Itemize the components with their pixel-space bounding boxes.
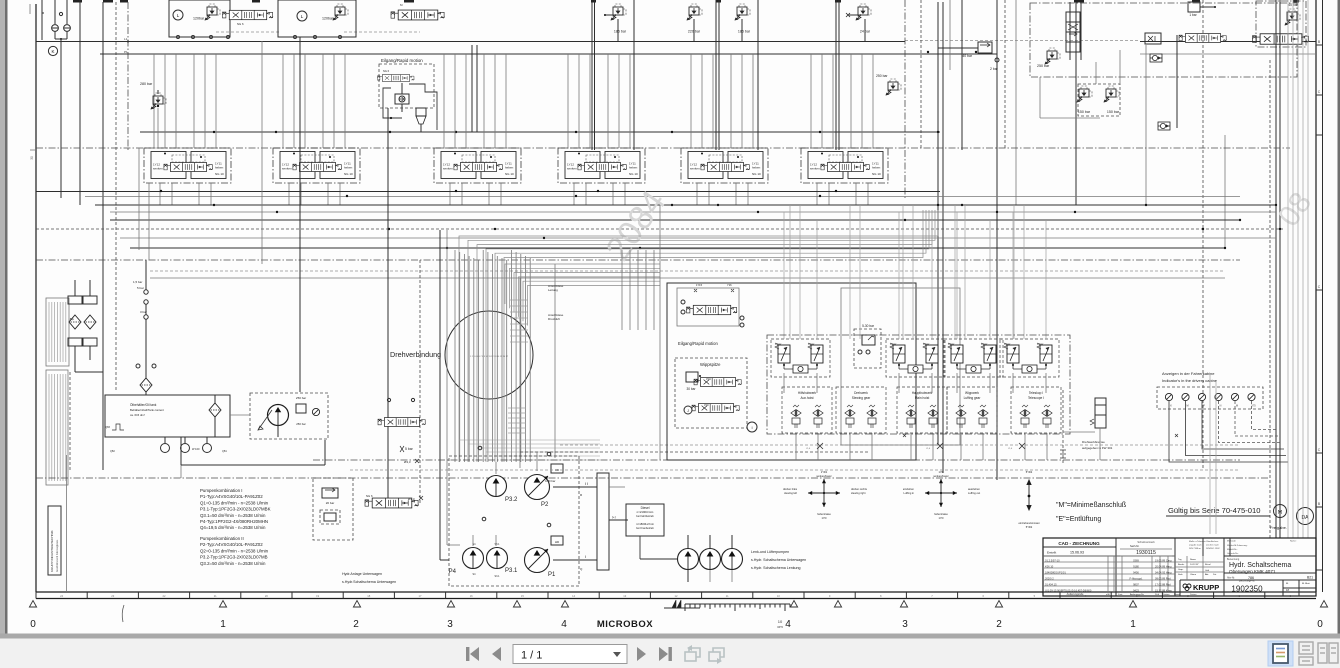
svg-text:40 bar: 40 bar <box>1288 3 1298 7</box>
svg-text:4: 4 <box>561 619 567 630</box>
svg-text:Dst: Dst <box>1213 573 1217 576</box>
joystick cross senken-heben 1 <box>808 479 840 507</box>
svg-text:20.04.89 Harg: 20.04.89 Harg <box>1155 565 1172 569</box>
svg-text:9180: 9180 <box>1133 565 1139 569</box>
svg-text:14.12.87: 14.12.87 <box>1190 564 1199 566</box>
function group enclosure <box>767 335 1070 434</box>
toolbar facing view button <box>1318 643 1338 663</box>
hatch marks in slew ring <box>510 299 528 301</box>
svg-text:I: I <box>585 554 586 559</box>
indicator gauge 6 <box>1248 393 1255 400</box>
svg-text:1 bar: 1 bar <box>1189 13 1197 17</box>
relief valve 120bar box1 <box>205 4 221 21</box>
svg-text:250 bar: 250 bar <box>876 74 888 78</box>
wires above valve group 6 <box>810 54 812 148</box>
Wippspitze valve 3YU <box>694 378 742 387</box>
svg-text:Obern: Obern <box>1190 573 1197 576</box>
svg-text:n=1800LV/min: n=1800LV/min <box>636 522 654 526</box>
node J <box>684 406 692 414</box>
title block outer <box>1043 538 1316 596</box>
node I <box>747 422 757 432</box>
pump assembly dashed enclosure <box>449 456 579 586</box>
svg-text:Name: Name <box>1174 594 1181 596</box>
svg-text:185 bar: 185 bar <box>738 30 751 34</box>
svg-text:Gültig bis Serie 70-475-010: Gültig bis Serie 70-475-010 <box>1168 506 1260 515</box>
relief valves 150bar pair <box>1077 86 1093 103</box>
svg-text:1902350: 1902350 <box>1231 585 1263 594</box>
return filters <box>74 280 76 296</box>
junction dots on buses <box>213 204 215 206</box>
svg-text:F-Aba-gpd.: F-Aba-gpd. <box>1130 577 1143 581</box>
tank heater symbol <box>112 424 124 430</box>
svg-text:2 bar: 2 bar <box>990 67 999 71</box>
svg-text:s.Hydr. Schaltschema Unterwage: s.Hydr. Schaltschema Unterwagen <box>751 558 806 562</box>
svg-text:40 bar: 40 bar <box>962 54 972 58</box>
svg-text:220 bar: 220 bar <box>688 30 701 34</box>
revision rows <box>1043 555 1175 557</box>
toolbar prev-page button <box>492 647 501 661</box>
wire bus y238 <box>120 237 1276 239</box>
wires bundle to pumps <box>495 462 497 474</box>
solenoid valve between L-boxes <box>223 10 274 19</box>
svg-text:Eilgang/Rapid motion: Eilgang/Rapid motion <box>381 58 423 63</box>
wire vertical pair 472-477 <box>471 45 473 132</box>
svg-text:1 / 1: 1 / 1 <box>521 650 542 662</box>
gearbox <box>597 473 609 570</box>
function box Hilfshubwerk <box>782 387 832 433</box>
orifice marks on dash bus <box>817 443 823 449</box>
svg-text:einziehen: einziehen <box>903 487 915 491</box>
filter funnel eilgang <box>416 108 426 116</box>
toolbar page combobox <box>513 645 627 664</box>
svg-text:drehen rechts: drehen rechts <box>851 487 868 491</box>
inner enclosure B <box>841 288 960 445</box>
toolbar first-page button <box>470 647 479 661</box>
svg-text:I I: I I <box>585 481 588 486</box>
svg-text:17.02.88 Rod: 17.02.88 Rod <box>1155 583 1171 587</box>
pump P3.2 <box>486 476 507 497</box>
wires above valve group 5 <box>690 54 692 148</box>
svg-text:1 2 3 4 5 6 7 8 9 10 11 12 13: 1 2 3 4 5 6 7 8 9 10 11 12 13 14 15 16 1… <box>470 356 509 358</box>
svg-text:Maßstab:: Maßstab: <box>1227 540 1237 543</box>
svg-text:Teleskop I: Teleskop I <box>1029 391 1043 395</box>
svg-text:1YD: 1YD <box>938 516 943 520</box>
svg-text:J: J <box>687 409 689 413</box>
4-2 valve right top <box>1179 34 1227 43</box>
svg-text:150 bar: 150 bar <box>1078 110 1091 114</box>
svg-text:Ansichtsbereich Fahrzeugkrane: Ansichtsbereich Fahrzeugkrane <box>56 539 59 572</box>
svg-text:ca. 615 dm³: ca. 615 dm³ <box>130 413 145 417</box>
svg-text:Y70: Y70 <box>1251 405 1256 408</box>
svg-text:250 bar: 250 bar <box>296 396 306 400</box>
svg-text:drehen links: drehen links <box>783 487 798 491</box>
diesel text box <box>626 504 664 536</box>
right window edge <box>1338 0 1340 637</box>
svg-text:Hilfshubwerk: Hilfshubwerk <box>798 391 817 395</box>
wire bus y271 dashed <box>150 270 1225 272</box>
wires above pair group 3 <box>956 212 958 339</box>
wires mid-right long verticals <box>789 205 791 339</box>
svg-text:Luffing out: Luffing out <box>968 491 980 495</box>
wire rail y132 <box>140 131 940 133</box>
svg-text:Zeichnungs-Nr.: Zeichnungs-Nr. <box>1239 580 1256 583</box>
wire long vertical buses left <box>79 0 81 205</box>
left bottom dashed wires <box>69 372 71 470</box>
svg-text:20: 20 <box>265 594 268 598</box>
svg-text:Stzb.: Stzb. <box>1178 573 1183 576</box>
wire bus y205 <box>95 204 1276 206</box>
valve 40 bar 2 bar <box>978 42 992 53</box>
relief drop wires <box>617 19 619 42</box>
svg-text:21: 21 <box>214 594 217 598</box>
HD box lower <box>551 536 563 545</box>
right border letter marks <box>1316 44 1323 46</box>
L-box 2 <box>278 0 356 37</box>
svg-text:NG 6: NG 6 <box>366 494 373 498</box>
svg-text:Luffing in: Luffing in <box>904 491 915 495</box>
svg-text:W 100: W 100 <box>192 447 200 451</box>
svg-text:Oberflächen-: Oberflächen- <box>1206 540 1219 543</box>
svg-text:zeichen nach: zeichen nach <box>1206 545 1220 547</box>
svg-text:slewing right: slewing right <box>851 491 866 495</box>
svg-text:Telescope I: Telescope I <box>1028 396 1044 400</box>
svg-text:24 bar: 24 bar <box>860 30 871 34</box>
svg-text:P1-Typ:A4VSG40/10L-PA91Z02: P1-Typ:A4VSG40/10L-PA91Z02 <box>200 494 263 499</box>
svg-text:Bearb.: Bearb. <box>1178 563 1185 566</box>
svg-text:15.06.93: 15.06.93 <box>1070 551 1084 555</box>
svg-text:I: I <box>751 425 752 430</box>
directional valve group 6 <box>801 148 888 183</box>
wire long verticals center-left <box>261 41 263 264</box>
wires pump to tank <box>230 414 250 416</box>
svg-text:NG 6: NG 6 <box>383 69 390 73</box>
wire bundle below ring turning right <box>459 439 600 441</box>
wires below function boxes <box>795 433 797 460</box>
svg-text:Prüf: Prüf <box>1155 593 1159 596</box>
wire top bus y41 <box>36 41 905 43</box>
svg-text:3Y0: 3Y0 <box>704 403 709 407</box>
wire bus y196 <box>85 196 1240 198</box>
stray pen mark <box>122 605 124 622</box>
svg-text:1840080GUP1/01: 1840080GUP1/01 <box>1045 571 1066 575</box>
check valve eilgang top <box>395 94 409 104</box>
wire verticals center-top <box>904 0 906 200</box>
svg-text:30: 30 <box>30 156 34 160</box>
function box Wippwerk <box>947 387 997 433</box>
svg-text:DIN/ISO 1302: DIN/ISO 1302 <box>1206 548 1220 550</box>
svg-text:9423: 9423 <box>1133 589 1139 593</box>
svg-text:1YD: 1YD <box>938 470 943 474</box>
Drehwerkbremse valve <box>1095 398 1106 428</box>
check valve right <box>1150 54 1162 62</box>
svg-text:Bl.: Bl. <box>1286 583 1289 585</box>
wires above valve group 4 <box>567 54 569 148</box>
svg-text:Hydr.Anlage Unterwagen: Hydr.Anlage Unterwagen <box>342 572 382 576</box>
svg-text:19.05.89 Carg: 19.05.89 Carg <box>1155 559 1172 563</box>
wire left bracket <box>41 0 43 40</box>
svg-text:2: 2 <box>996 619 1002 630</box>
svg-text:Leitung: Leitung <box>548 288 558 292</box>
svg-text:Haupthubwerk: Haupthubwerk <box>912 391 933 395</box>
svg-text:P4: P4 <box>449 569 457 575</box>
toolbar scrolling view button <box>1299 642 1313 665</box>
svg-text:Freigabe.: Freigabe. <box>1270 525 1287 530</box>
svg-text:18: 18 <box>367 594 370 598</box>
svg-text:QB2: QB2 <box>110 450 115 453</box>
tank <box>105 395 230 437</box>
double arrow teleskop <box>1027 480 1031 510</box>
tank drain gauges <box>164 437 166 443</box>
svg-text:cm: cm <box>777 624 783 629</box>
svg-text:1,5 bar: 1,5 bar <box>133 280 142 284</box>
svg-text:Name: Name <box>1190 559 1197 561</box>
wire bundle verticals through slew ring <box>454 250 456 462</box>
wires above valve group 2 <box>282 54 284 148</box>
svg-text:3: 3 <box>447 619 453 630</box>
mark DA circle <box>1297 508 1314 525</box>
svg-text:angabe nach: angabe nach <box>1189 545 1202 547</box>
toolbar single-page view selected <box>1268 641 1293 666</box>
left window strip <box>0 0 5 637</box>
toolbar next-page button <box>637 647 646 661</box>
svg-text:19: 19 <box>316 594 319 598</box>
indicator dashed box <box>1157 387 1263 409</box>
dash-dot enclosure top right <box>1030 3 1297 77</box>
svg-text:K: K <box>51 49 54 54</box>
wire bus y248 <box>130 247 1225 249</box>
svg-text:s.Hydr.Schaltschema Unterwagen: s.Hydr.Schaltschema Unterwagen <box>342 580 396 584</box>
toolbar next-view button disabled <box>709 648 724 664</box>
orifice marks row y436 <box>903 434 906 437</box>
svg-text:ausziehen: ausziehen <box>968 487 980 491</box>
note box rotated text 1 <box>46 298 69 366</box>
wire verticals eilgang bundle <box>621 250 623 330</box>
wires above valve group 3 <box>443 54 445 148</box>
svg-text:Y16: Y16 <box>727 283 732 287</box>
svg-text:Luffing gear: Luffing gear <box>964 396 982 400</box>
svg-text:80μ: 80μ <box>70 317 75 321</box>
directional valve group 4 <box>558 148 645 183</box>
svg-text:s.Hydr. Schaltschema Lenkung: s.Hydr. Schaltschema Lenkung <box>751 566 801 570</box>
svg-text:9456: 9456 <box>1133 571 1139 575</box>
svg-text:NG 6: NG 6 <box>237 22 244 26</box>
svg-text:einziehen/einmast: einziehen/einmast <box>1019 521 1040 525</box>
svg-text:23: 23 <box>111 594 114 598</box>
svg-text:Gesenk-Nr.:: Gesenk-Nr.: <box>1227 552 1239 555</box>
svg-text:Datum: Datum <box>1163 593 1170 596</box>
svg-text:202/0.2: 202/0.2 <box>1045 577 1054 581</box>
svg-text:2: 2 <box>353 619 359 630</box>
svg-text:KRUPP INDUSTRIETECHNIK: KRUPP INDUSTRIETECHNIK <box>50 529 54 572</box>
svg-text:[+]: [+] <box>612 515 616 519</box>
svg-text:Abt.: Abt. <box>1205 573 1209 576</box>
svg-text:Ölbehälter/Oil tank: Ölbehälter/Oil tank <box>130 403 157 407</box>
valve pair group 4 <box>1000 339 1059 377</box>
svg-text:Main hoist: Main hoist <box>915 396 930 400</box>
wire bus y212 <box>110 211 1276 213</box>
bottom page shadow bar <box>0 634 1340 639</box>
svg-text:P3.1-Typ:1PF2G3-2X/023LD07MBK: P3.1-Typ:1PF2G3-2X/023LD07MBK <box>200 507 271 512</box>
relief valve 250 bar pump <box>296 404 306 413</box>
svg-text:20 bar: 20 bar <box>326 501 335 505</box>
svg-text:Werkst.M.Zulassung:: Werkst.M.Zulassung: <box>1227 544 1248 547</box>
svg-text:Name :: Name : <box>1290 541 1297 543</box>
toolbar prev-view button disabled <box>685 645 700 661</box>
wires above pair group 2 <box>898 212 900 339</box>
wires above pair group 4 <box>1012 212 1014 339</box>
svg-text:5 bar: 5 bar <box>405 447 414 451</box>
svg-text:P2: P2 <box>541 502 549 508</box>
wire bus y191 <box>36 191 940 193</box>
pump P1 <box>525 548 550 573</box>
svg-text:14: 14 <box>572 594 575 598</box>
svg-text:22: 22 <box>163 594 166 598</box>
directional valve group 2 <box>273 148 360 183</box>
svg-text:Hydr. Schaltschema: Hydr. Schaltschema <box>1229 562 1291 569</box>
svg-text:senken/lower: senken/lower <box>933 474 948 478</box>
svg-text:Drehwerkbremse: Drehwerkbremse <box>1082 440 1105 444</box>
svg-text:"M"=Minimeßanschluß: "M"=Minimeßanschluß <box>1056 502 1126 509</box>
svg-text:1: 1 <box>1130 619 1136 630</box>
svg-text:Eilgang/Rapid motion: Eilgang/Rapid motion <box>678 341 718 346</box>
small valve 1 bar <box>1188 2 1200 12</box>
Eilgang enclosure <box>667 283 916 460</box>
svg-text:Datum: Datum <box>1190 593 1197 596</box>
pump P3.1 <box>487 548 508 569</box>
svg-text:M: M <box>1236 405 1238 408</box>
svg-text:MICROBOX: MICROBOX <box>597 619 653 630</box>
small valve right mid <box>1145 33 1161 44</box>
svg-text:0: 0 <box>1317 619 1323 630</box>
svg-text:Q3.2=50 dm³/min - n=2538 U/min: Q3.2=50 dm³/min - n=2538 U/min <box>200 561 266 566</box>
Wippspitze valve 3YO <box>692 404 740 413</box>
wire bundle top nest A <box>459 210 938 462</box>
svg-text:11: 11 <box>726 594 729 598</box>
svg-text:QB3: QB3 <box>105 426 110 429</box>
function box Drehwerk <box>836 387 886 433</box>
drawing frame left border <box>35 4 37 592</box>
svg-text:Änderungstufe: Änderungstufe <box>1067 592 1084 596</box>
10 cm fine ruler <box>685 603 790 605</box>
svg-text:slewing left: slewing left <box>784 491 797 495</box>
wire right long bus pair <box>1275 0 1277 538</box>
svg-text:S3.1: S3.1 <box>495 575 501 578</box>
svg-text:250 bar: 250 bar <box>296 422 306 426</box>
svg-text:P4-Typ:1PF2G2-4X/080RH20MHN: P4-Typ:1PF2G2-4X/080RH20MHN <box>200 519 268 524</box>
wires eilgang top <box>409 84 437 130</box>
tank suction outline <box>180 437 182 465</box>
svg-text:5-30 bar: 5-30 bar <box>862 324 875 328</box>
svg-text:12: 12 <box>675 594 678 598</box>
directional valve group 1 <box>144 148 231 183</box>
svg-text:1YD: 1YD <box>821 516 826 520</box>
svg-text:bei Fahrbetrieb: bei Fahrbetrieb <box>636 514 654 518</box>
toolbar background <box>0 639 1340 668</box>
svg-text:"E"=Entlüftung: "E"=Entlüftung <box>1056 516 1101 523</box>
svg-text:120bar: 120bar <box>322 17 334 21</box>
drawing frame bottom scale bar <box>36 591 1316 593</box>
svg-text:Maße u.Toleranz-: Maße u.Toleranz- <box>1189 540 1206 543</box>
svg-text:Wippspitze: Wippspitze <box>700 362 721 367</box>
svg-text:120bar: 120bar <box>193 17 205 21</box>
svg-text:QB1: QB1 <box>222 450 227 453</box>
wires above pair group 1 <box>783 212 785 339</box>
fold mark triangles <box>29 601 36 608</box>
joystick cross 2 <box>925 479 957 507</box>
node K <box>48 46 57 55</box>
wires above valve group 1 <box>153 54 155 148</box>
steering pumps <box>678 549 699 570</box>
svg-text:KRUPP: KRUPP <box>1193 583 1219 592</box>
relief valve 250 bar mid-top <box>886 79 902 96</box>
wires drehwerkbremse <box>1062 390 1064 465</box>
pump P2 <box>525 475 550 500</box>
svg-text:aufgegeben in FW 301: aufgegeben in FW 301 <box>1082 446 1113 450</box>
KRUPP INDUSTRIETECHNIK box <box>48 506 61 575</box>
indicator gauge 3 <box>1198 393 1205 400</box>
top right valve bank <box>1256 1 1306 47</box>
right top block 250bar <box>1069 2 1071 60</box>
svg-text:250 bar: 250 bar <box>1037 64 1050 68</box>
svg-text:3YU: 3YU <box>706 377 711 381</box>
30 bar valve <box>686 372 698 382</box>
relief valve 24 bar <box>856 4 872 21</box>
pump unit dashed box <box>250 393 328 439</box>
drawing frame right border <box>1315 0 1317 592</box>
KRUPP logo <box>1183 584 1191 591</box>
vertical bus pairs top <box>591 0 593 150</box>
svg-text:Schutzvermerk: Schutzvermerk <box>1137 540 1155 544</box>
wire bundle top nest B <box>505 264 660 304</box>
svg-text:heben/raise: heben/raise <box>817 512 831 516</box>
svg-text:L1: L1 <box>124 37 128 41</box>
wires pair groups to function boxes <box>783 373 785 393</box>
svg-text:09.03.89 Rod.: 09.03.89 Rod. <box>1155 577 1172 581</box>
svg-text:Pumpenkombination II: Pumpenkombination II <box>200 536 244 541</box>
svg-text:280 bar: 280 bar <box>140 82 153 86</box>
svg-text:P1: P1 <box>124 50 128 54</box>
svg-text:M: M <box>1278 510 1282 516</box>
title block grid <box>1043 546 1116 548</box>
svg-text:01.404.15: 01.404.15 <box>1045 583 1057 587</box>
directional valve group 3 <box>434 148 521 183</box>
svg-text:Anzeigen in der Fahrerkabine: Anzeigen in der Fahrerkabine <box>1162 371 1215 376</box>
svg-text:Sach-Nr.: Sach-Nr. <box>1130 545 1140 548</box>
svg-text:Indicator's in the drivers cab: Indicator's in the drivers cabine <box>1162 378 1218 383</box>
pump port circles <box>478 446 482 450</box>
svg-text:P3.2-Typ:1PF2G3-2X/023LD07MB: P3.2-Typ:1PF2G3-2X/023LD07MB <box>200 555 268 560</box>
svg-text:senken/lower: senken/lower <box>816 474 831 478</box>
svg-text:n=2190U/min: n=2190U/min <box>637 510 654 514</box>
left margin tick <box>29 4 31 14</box>
Wippspitze box <box>675 358 747 428</box>
svg-text:9807: 9807 <box>1133 583 1139 587</box>
svg-text:Gepr.: Gepr. <box>1178 568 1184 571</box>
svg-text:01.2.5/97-10: 01.2.5/97-10 <box>1045 559 1060 563</box>
svg-text:150 bar: 150 bar <box>1107 110 1120 114</box>
svg-text:Slewing gear: Slewing gear <box>852 396 871 400</box>
svg-text:Q3.1=50 dm³/min - n=2538 U/min: Q3.1=50 dm³/min - n=2538 U/min <box>200 513 266 518</box>
valve pair group 1 <box>771 339 830 377</box>
valve pair group 3 <box>944 339 1003 377</box>
wire bus y220 <box>110 219 1240 221</box>
svg-text:1: 1 <box>220 619 226 630</box>
svg-text:17: 17 <box>419 594 422 598</box>
svg-text:Ø3,3: Ø3,3 <box>408 497 415 501</box>
svg-text:5 bar: 5 bar <box>137 286 144 290</box>
mark M circle <box>1274 505 1287 518</box>
svg-text:P2-Typ:A4VSG40/10L-PA91Z02: P2-Typ:A4VSG40/10L-PA91Z02 <box>200 542 263 547</box>
